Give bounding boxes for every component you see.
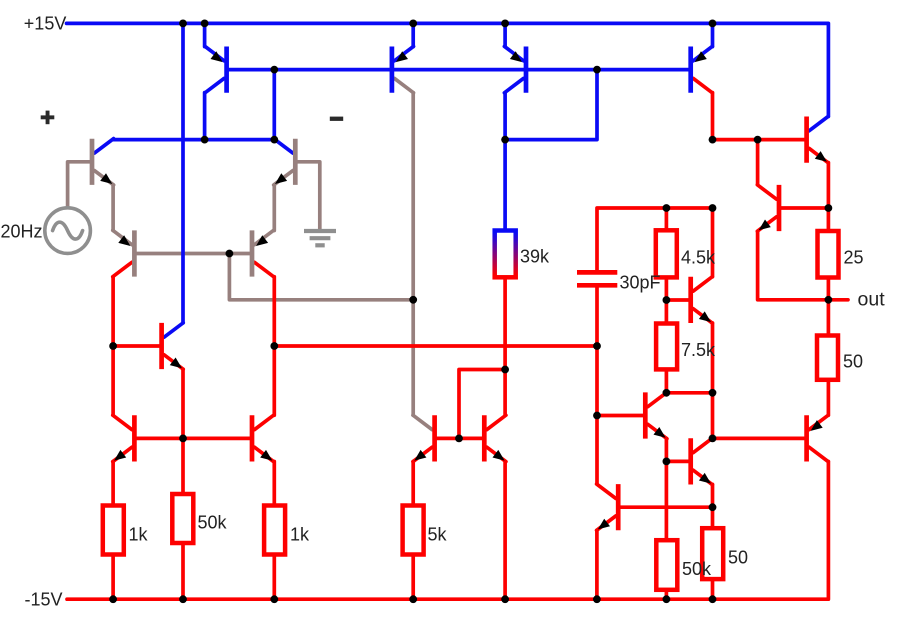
svg-text:1k: 1k [129,525,149,545]
svg-text:+15V: +15V [24,14,67,34]
svg-text:50k: 50k [198,513,228,533]
svg-text:39k: 39k [520,247,550,267]
svg-text:50: 50 [843,352,863,372]
svg-text:25: 25 [844,248,864,268]
svg-text:out: out [858,288,886,310]
svg-text:30pF: 30pF [620,273,661,293]
svg-text:7.5k: 7.5k [681,340,716,360]
svg-text:20Hz: 20Hz [1,222,43,242]
svg-text:1k: 1k [290,525,310,545]
svg-text:50: 50 [728,548,748,568]
svg-text:50k: 50k [682,559,712,579]
svg-text:4.5k: 4.5k [681,248,716,268]
svg-text:-15V: -15V [25,590,63,610]
svg-text:5k: 5k [428,525,448,545]
